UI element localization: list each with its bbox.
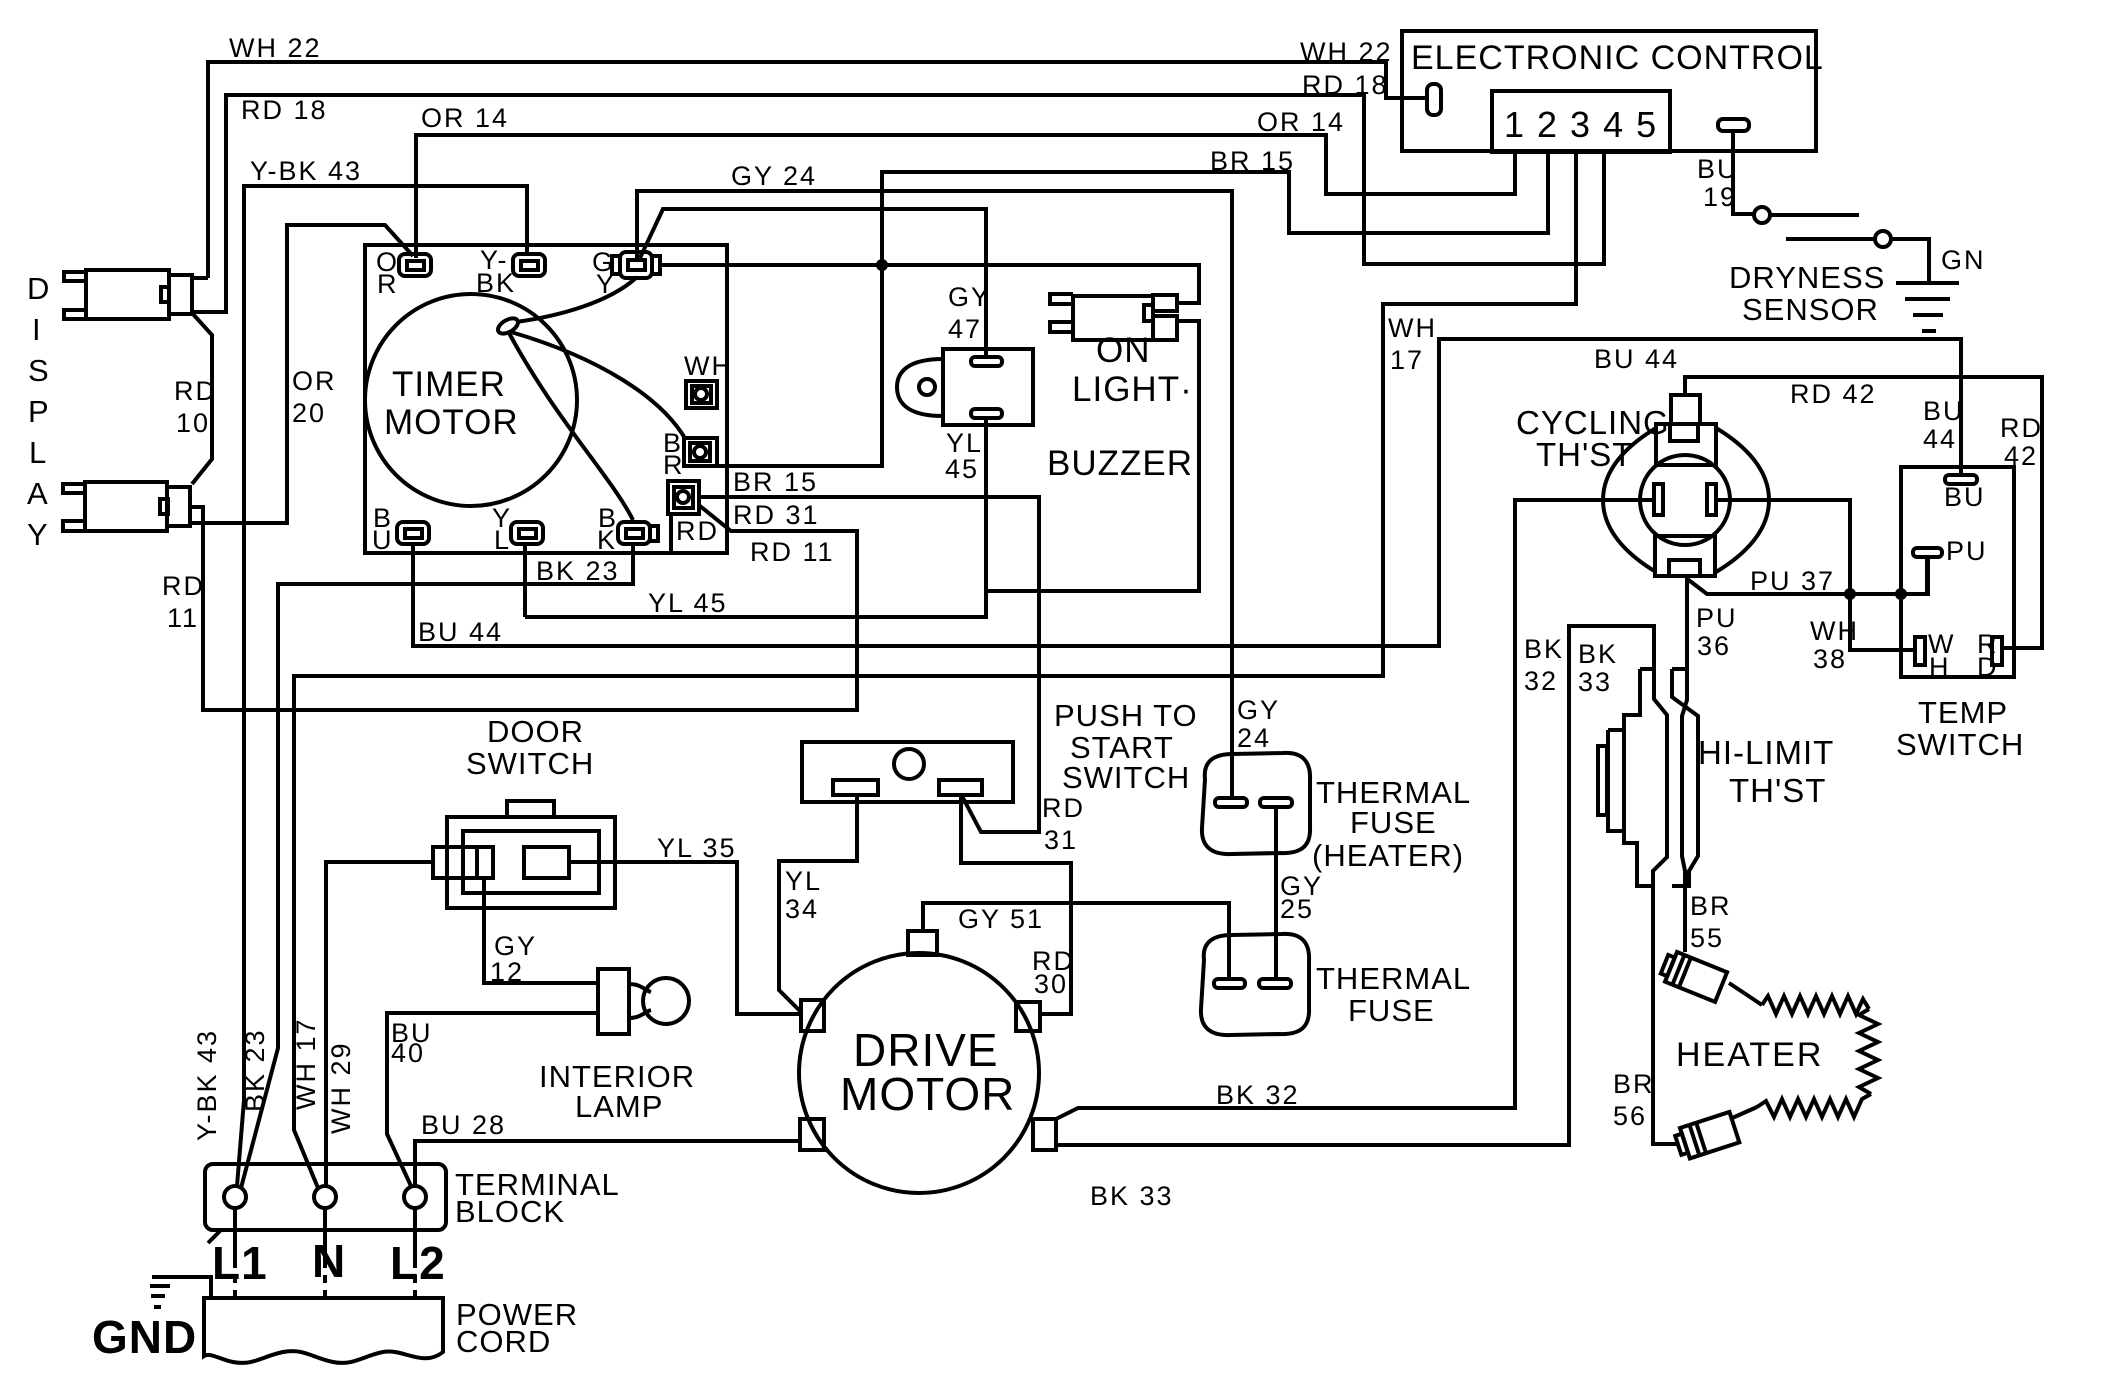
svg-text:BU: BU xyxy=(1944,482,1986,512)
wire RD31 timer RD pad to push-to-start xyxy=(700,497,1085,855)
svg-text:D: D xyxy=(1977,652,1999,682)
svg-text:BK 32: BK 32 xyxy=(1216,1080,1300,1110)
svg-text:11: 11 xyxy=(167,603,199,633)
svg-text:GY 24: GY 24 xyxy=(731,161,817,191)
wire GY51 motor to thermal fuse xyxy=(923,903,1229,979)
wire BK32 cycling to motor xyxy=(1054,500,1654,1120)
svg-text:WH: WH xyxy=(684,351,733,381)
vertical wire labels at terminal block xyxy=(192,1017,356,1141)
svg-text:RD: RD xyxy=(2000,413,2043,443)
wire GY24 bus xyxy=(637,161,1280,798)
svg-text:YL 35: YL 35 xyxy=(657,833,737,863)
svg-text:L: L xyxy=(29,435,47,470)
timer terminal B-K xyxy=(597,503,658,555)
svg-text:SENSOR: SENSOR xyxy=(1742,292,1879,327)
svg-text:LAMP: LAMP xyxy=(575,1089,663,1124)
push to start switch xyxy=(802,698,1198,802)
display upper connector xyxy=(64,270,192,319)
svg-text:BR: BR xyxy=(1613,1069,1655,1099)
connector pill WH22 in EC xyxy=(1427,84,1441,115)
svg-text:L: L xyxy=(494,525,511,555)
wire YL45 Y-L leg xyxy=(523,543,527,617)
svg-text:BR 15: BR 15 xyxy=(1210,146,1295,176)
svg-text:WH 22: WH 22 xyxy=(1300,37,1393,67)
on light component xyxy=(1050,294,1193,409)
svg-text:GN: GN xyxy=(1941,245,1986,275)
svg-text:TIMER: TIMER xyxy=(392,365,506,404)
timer internal curve to hook xyxy=(516,277,637,322)
svg-text:TEMP: TEMP xyxy=(1918,695,2008,730)
svg-text:30: 30 xyxy=(1034,969,1068,999)
svg-text:RD 11: RD 11 xyxy=(750,537,835,567)
svg-text:OR: OR xyxy=(292,366,337,396)
svg-text:S: S xyxy=(28,353,50,388)
terminal block xyxy=(205,1164,620,1243)
wire PU37 cycling to temp switch PU xyxy=(1686,557,1928,596)
svg-text:WH: WH xyxy=(1388,313,1437,343)
svg-text:GY: GY xyxy=(1237,695,1280,725)
electronic control box U1 xyxy=(1402,31,1824,151)
wire WH22 display stub xyxy=(192,276,208,280)
timer motor box xyxy=(365,245,727,553)
svg-text:20: 20 xyxy=(292,398,326,428)
wire OR20 display to timer O-R xyxy=(190,225,413,523)
timer terminal B-U xyxy=(372,503,429,555)
svg-text:DOOR: DOOR xyxy=(487,714,584,749)
svg-text:YL: YL xyxy=(785,866,822,896)
svg-text:BK 23: BK 23 xyxy=(240,1028,270,1112)
thermal fuse F2 xyxy=(1201,934,1471,1035)
label GY47 xyxy=(948,282,991,344)
wire RD11 display to timer RD pad xyxy=(162,506,857,710)
ground symbol GN xyxy=(1896,283,1959,331)
svg-text:12345: 12345 xyxy=(1504,104,1669,145)
door switch xyxy=(433,714,615,908)
heater upper plug xyxy=(1659,949,1728,1002)
svg-text:RD 18: RD 18 xyxy=(1302,70,1389,100)
display lower connector xyxy=(63,482,190,531)
svg-text:U: U xyxy=(372,525,394,555)
svg-text:38: 38 xyxy=(1813,644,1847,674)
svg-text:BR: BR xyxy=(1690,891,1732,921)
svg-text:WH 22: WH 22 xyxy=(229,33,322,63)
label dryness sensor xyxy=(1729,260,1885,327)
wire BU19 to dryness sensor xyxy=(1697,131,1754,214)
svg-text:OR 14: OR 14 xyxy=(421,103,509,133)
svg-text:BK: BK xyxy=(1578,639,1618,669)
ground symbol GND xyxy=(92,1277,211,1363)
wire GY25 between fuses xyxy=(1276,807,1323,979)
svg-text:HI-LIMIT: HI-LIMIT xyxy=(1698,734,1834,771)
svg-text:BUZZER: BUZZER xyxy=(1047,444,1193,483)
svg-text:ELECTRONIC CONTROL: ELECTRONIC CONTROL xyxy=(1411,39,1824,77)
svg-text:12: 12 xyxy=(490,957,524,987)
labels L1 N L2 xyxy=(212,1235,446,1289)
svg-text:GY: GY xyxy=(948,282,991,312)
wire BR55 hi-limit to heater plug xyxy=(1690,891,1732,953)
wire EC pin3 pin4 junction to RD18/WH17 xyxy=(294,152,1604,1188)
svg-text:44: 44 xyxy=(1923,424,1957,454)
dryness sensor switch xyxy=(1754,207,1986,281)
svg-text:I: I xyxy=(32,312,42,347)
svg-text:40: 40 xyxy=(391,1038,425,1068)
svg-text:BU: BU xyxy=(1923,396,1965,426)
power cord xyxy=(204,1297,578,1363)
svg-text:24: 24 xyxy=(1237,723,1271,753)
svg-text:L2: L2 xyxy=(390,1237,446,1289)
timer terminal Y-BK xyxy=(476,245,545,298)
svg-text:56: 56 xyxy=(1613,1101,1647,1131)
hi-limit thermostat xyxy=(1598,669,1834,886)
timer BR pad xyxy=(663,428,717,480)
wire GY12 door switch to lamp xyxy=(484,878,598,987)
svg-text:R: R xyxy=(663,450,685,480)
label BK33 xyxy=(1578,639,1618,697)
svg-text:WH 17: WH 17 xyxy=(291,1017,321,1110)
wire YL35 leg to push-to-start xyxy=(779,795,857,1012)
svg-text:47: 47 xyxy=(948,314,982,344)
svg-text:TH'ST: TH'ST xyxy=(1536,436,1633,473)
svg-text:SWITCH: SWITCH xyxy=(1896,727,2024,762)
svg-text:10: 10 xyxy=(176,408,210,438)
wire Y-BK43 bus xyxy=(237,156,527,1186)
timer internal curve to BR pad xyxy=(511,332,686,440)
svg-text:OR 14: OR 14 xyxy=(1257,107,1345,137)
wire RD42 cycling to temp switch RD xyxy=(1685,377,2043,648)
svg-text:BLOCK: BLOCK xyxy=(455,1194,565,1229)
wire RD10 between display connectors xyxy=(174,313,217,484)
svg-text:BU 44: BU 44 xyxy=(418,617,503,647)
thermal fuse heater F1 xyxy=(1202,753,1471,873)
svg-text:36: 36 xyxy=(1697,631,1731,661)
svg-text:BK: BK xyxy=(1524,634,1564,664)
timer hook xyxy=(495,315,520,336)
svg-text:THERMAL: THERMAL xyxy=(1316,961,1471,996)
cycling thermostat xyxy=(1516,395,1769,576)
svg-text:CORD: CORD xyxy=(456,1324,551,1359)
svg-text:D: D xyxy=(27,271,50,306)
svg-text:SWITCH: SWITCH xyxy=(466,746,594,781)
svg-text:RD: RD xyxy=(162,571,205,601)
svg-text:RD: RD xyxy=(1042,793,1085,823)
svg-text:Y-BK 43: Y-BK 43 xyxy=(192,1029,222,1141)
svg-text:BU 28: BU 28 xyxy=(421,1110,506,1140)
svg-text:LIGHT·: LIGHT· xyxy=(1072,370,1193,409)
svg-text:Y-BK 43: Y-BK 43 xyxy=(250,156,362,186)
wire BU28 L2 to motor xyxy=(415,1110,800,1186)
svg-text:BR 15: BR 15 xyxy=(733,467,818,497)
svg-text:BU: BU xyxy=(1697,154,1739,184)
svg-text:25: 25 xyxy=(1280,894,1314,924)
wire BU40 lamp to L2 xyxy=(387,1013,598,1186)
wire ON LIGHT lower tab to YL45 node xyxy=(986,321,1199,591)
wire WH29 N to door switch xyxy=(326,862,433,1186)
svg-text:Y: Y xyxy=(27,517,49,552)
wire RD18 bus xyxy=(192,70,1576,312)
wire BK23 timer to L1 xyxy=(241,543,633,1188)
svg-text:33: 33 xyxy=(1578,667,1612,697)
wire BU44 timer B-U to temp switch xyxy=(413,339,1965,647)
timer terminal G-Y xyxy=(592,247,660,299)
svg-text:SWITCH: SWITCH xyxy=(1062,760,1190,795)
svg-text:RD: RD xyxy=(676,516,719,546)
wire WH38 cycling to temp switch WH xyxy=(1716,500,1915,674)
svg-text:R: R xyxy=(377,269,399,299)
svg-text:WH 29: WH 29 xyxy=(326,1041,356,1134)
svg-text:H: H xyxy=(1929,652,1951,682)
svg-text:HEATER: HEATER xyxy=(1676,1036,1823,1074)
timer terminal O-R xyxy=(376,247,431,299)
connector pill BU19 in EC xyxy=(1718,119,1749,131)
svg-text:FUSE: FUSE xyxy=(1348,993,1435,1028)
label YL45 buzzer xyxy=(945,428,983,484)
drive motor M1 xyxy=(799,931,1056,1193)
svg-text:PUSH TO: PUSH TO xyxy=(1054,698,1198,733)
wire PU36 cycling to hi-limit xyxy=(1682,576,1738,952)
node dots PU37 xyxy=(1844,588,1856,600)
heater coil xyxy=(1676,996,1878,1117)
wire YL35 door switch to motor xyxy=(569,833,801,1014)
power cord leads xyxy=(235,1208,415,1298)
timer motor circle xyxy=(365,294,577,506)
svg-text:ON: ON xyxy=(1096,331,1151,370)
wire OR14 bus xyxy=(416,103,1515,258)
svg-text:RD 18: RD 18 xyxy=(241,95,328,125)
EC terminal strip 1 2 3 4 5 xyxy=(1492,91,1670,152)
wire RD30 push-to-start to motor xyxy=(961,795,1075,1014)
svg-text:RD: RD xyxy=(174,376,217,406)
svg-text:19: 19 xyxy=(1703,182,1737,212)
svg-text:TH'ST: TH'ST xyxy=(1729,772,1826,809)
svg-text:MOTOR: MOTOR xyxy=(384,403,519,442)
display label vertical xyxy=(27,271,50,552)
timer WH pad xyxy=(684,351,733,408)
timer RD pad xyxy=(668,481,719,553)
buzzer xyxy=(897,349,1193,483)
svg-text:(HEATER): (HEATER) xyxy=(1312,838,1464,873)
svg-text:GND: GND xyxy=(92,1311,197,1363)
svg-text:GY 51: GY 51 xyxy=(958,904,1044,934)
wire GY47 feed from G-Y terminal to buzzer xyxy=(640,209,986,358)
wire GY to ON LIGHT upper tab xyxy=(659,265,1199,303)
svg-text:A: A xyxy=(27,476,49,511)
svg-text:FUSE: FUSE xyxy=(1350,805,1437,840)
svg-text:PU: PU xyxy=(1946,536,1988,566)
svg-text:BK 33: BK 33 xyxy=(1090,1181,1174,1211)
svg-text:34: 34 xyxy=(785,894,819,924)
svg-text:45: 45 xyxy=(945,454,979,484)
wire BK33 motor to hi-limit xyxy=(1056,626,1678,1211)
wire BR56 heater to hi-limit xyxy=(1613,1069,1655,1131)
svg-text:BK 23: BK 23 xyxy=(536,556,620,586)
svg-text:17: 17 xyxy=(1390,345,1424,375)
svg-text:MOTOR: MOTOR xyxy=(840,1068,1015,1120)
temp switch box xyxy=(1896,467,2024,762)
svg-text:PU: PU xyxy=(1696,603,1738,633)
svg-text:N: N xyxy=(312,1235,346,1287)
timer internal curve to B-K terminal xyxy=(509,333,633,520)
wire WH22 top bus xyxy=(208,33,1427,278)
svg-text:RD 31: RD 31 xyxy=(733,500,820,530)
svg-text:PU 37: PU 37 xyxy=(1750,566,1835,596)
wire BR15 from EC pin2 to timer BR pad xyxy=(717,146,1548,497)
svg-text:55: 55 xyxy=(1690,923,1724,953)
svg-text:RD 42: RD 42 xyxy=(1790,379,1877,409)
svg-text:31: 31 xyxy=(1044,825,1078,855)
svg-text:WH: WH xyxy=(1810,616,1859,646)
node junction dot BR15/GY wire xyxy=(876,259,888,271)
svg-text:DRYNESS: DRYNESS xyxy=(1729,260,1885,295)
svg-text:L1: L1 xyxy=(212,1237,268,1289)
svg-text:32: 32 xyxy=(1524,666,1558,696)
interior lamp xyxy=(539,969,695,1124)
svg-text:K: K xyxy=(597,525,617,555)
svg-text:P: P xyxy=(28,394,50,429)
label YL34 xyxy=(785,866,822,924)
timer terminal Y-L xyxy=(492,503,543,555)
svg-text:YL 45: YL 45 xyxy=(648,588,728,618)
heater lower plug xyxy=(1673,1107,1757,1161)
svg-text:BU 44: BU 44 xyxy=(1594,344,1679,374)
wire YL45 buzzer to bus xyxy=(525,418,986,618)
